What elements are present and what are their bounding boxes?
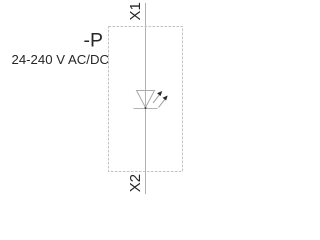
- LED cathode bar: [134, 108, 158, 110]
- junction dot at LED cathode: [145, 107, 147, 109]
- LED triangle (anode): [137, 91, 155, 108]
- LED emission arrow 2 shaft: [159, 99, 166, 107]
- svg-text:24-240 V AC/DC: 24-240 V AC/DC: [12, 52, 110, 67]
- svg-text:X2: X2: [127, 174, 144, 192]
- LED emission arrow 2 head: [163, 96, 168, 101]
- LED emission arrow 1 shaft: [153, 95, 160, 103]
- LED emission arrow 1 head: [157, 91, 162, 96]
- svg-text:X1: X1: [127, 2, 144, 20]
- wire: vertical conductor from terminal X1 to terminal X2: [145, 3, 147, 194]
- svg-text:-P: -P: [84, 30, 104, 52]
- lamp module boundary (dashed enclosure): [109, 27, 183, 172]
